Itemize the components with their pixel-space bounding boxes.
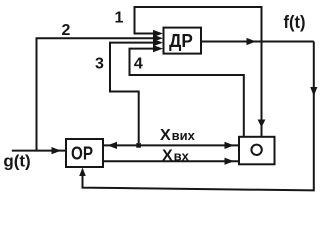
- wire 4 : from О box top edge up and into ДР input 4: [130, 49, 244, 136]
- arrowhead Х вих right into О left: [225, 142, 235, 149]
- wire О top input from output node: [261, 42, 263, 137]
- arrowhead into ДР input 1: [153, 30, 163, 37]
- wire Х вих: [104, 144, 239, 146]
- wire 1 : feedback from output node up over the top into ДР input 1: [135, 7, 262, 42]
- svg-text:1: 1: [115, 9, 124, 26]
- svg-text:ДР: ДР: [169, 31, 193, 51]
- arrowhead down into О top: [258, 120, 266, 128]
- wire ДР output to right side: [201, 41, 314, 43]
- block ДР: [164, 28, 202, 54]
- arrowhead into ДР input 2: [153, 35, 163, 42]
- svg-text:ОР: ОР: [71, 144, 93, 164]
- wire Х вх: [103, 160, 239, 162]
- arrowhead mid-line on f(t) drop: [310, 87, 317, 96]
- svg-text:Хвих: Хвих: [160, 127, 196, 144]
- arrowhead g(t) into ОР left: [52, 147, 62, 154]
- svg-text:2: 2: [62, 22, 71, 39]
- svg-text:g(t): g(t): [3, 152, 30, 171]
- block О: [239, 137, 275, 165]
- arrowhead mid-line on ДР output: [247, 38, 257, 45]
- arrowhead up into ОР bottom: [79, 168, 86, 177]
- wire 3 : from Х вих junction up and into ДР input 3: [110, 43, 157, 143]
- arrowhead Х вих left into ОР right: [108, 142, 118, 149]
- svg-text:3: 3: [95, 55, 104, 72]
- wire f(t) drop down right side and bottom feedback into ОР: [83, 42, 314, 191]
- block ОР: [66, 139, 103, 167]
- letter О drawn as circle in block О: [251, 145, 261, 155]
- wire g(t) input: [12, 150, 66, 152]
- arrowhead into ДР input 3: [153, 39, 163, 46]
- svg-text:4: 4: [134, 56, 143, 73]
- svg-text:Хвх: Хвх: [162, 147, 190, 164]
- junction dot on Х вих line: [136, 143, 141, 148]
- svg-text:f(t): f(t): [284, 12, 306, 32]
- arrowhead into ДР input 4: [153, 45, 163, 52]
- wire 2 : branch from g(t) line up and right into ДР input 2: [37, 38, 158, 150]
- arrowhead Х вх right into О left: [225, 158, 235, 165]
